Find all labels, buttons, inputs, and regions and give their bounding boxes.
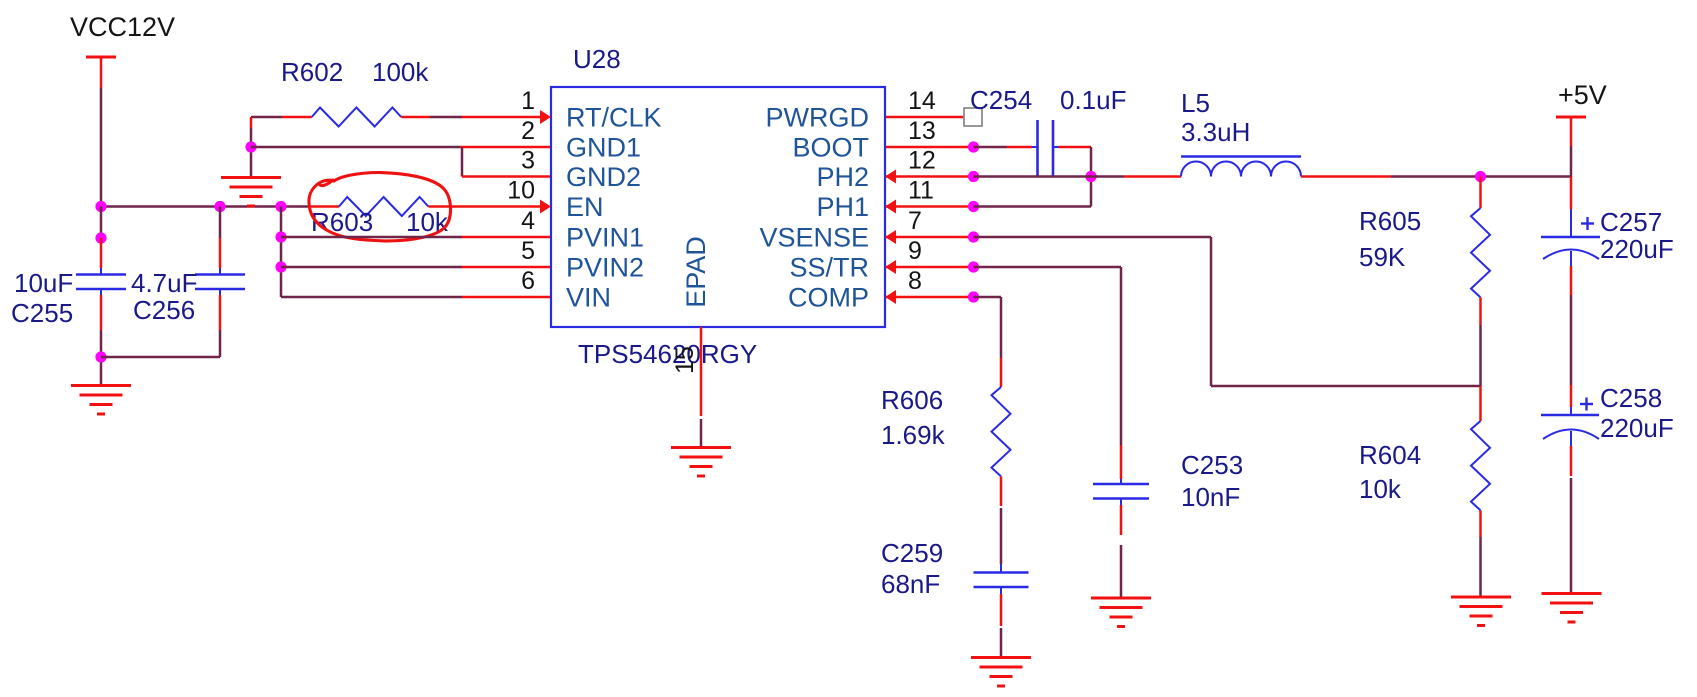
wire — [1570, 385, 1573, 415]
node junction — [968, 201, 979, 212]
pin number 4 — [521, 207, 535, 235]
inductor L5 — [1181, 157, 1301, 177]
value 3.3uH — [1181, 117, 1250, 147]
svg-text:PH2: PH2 — [816, 162, 869, 192]
svg-text:59K: 59K — [1359, 242, 1406, 272]
svg-text:VIN: VIN — [566, 283, 611, 313]
svg-text:10nF: 10nF — [1181, 482, 1240, 512]
svg-text:2: 2 — [521, 117, 535, 145]
svg-text:1.69k: 1.69k — [881, 420, 946, 450]
wire — [428, 205, 540, 208]
wire — [974, 266, 1122, 269]
pin number 9 — [908, 237, 922, 265]
annotation red circle — [309, 173, 451, 241]
wire — [886, 175, 974, 178]
ground — [1542, 594, 1602, 623]
svg-text:5: 5 — [521, 237, 535, 265]
capacitor C253 — [1093, 484, 1149, 499]
svg-text:10k: 10k — [1359, 474, 1402, 504]
value 220uF — [1600, 413, 1674, 443]
pin number 14 — [908, 87, 936, 115]
pin arrow PH2 — [885, 170, 896, 184]
pin number 15 — [671, 346, 699, 374]
svg-text:L5: L5 — [1181, 88, 1210, 118]
wire — [1000, 587, 1002, 658]
pin BOOT — [792, 133, 869, 163]
svg-text:R606: R606 — [881, 385, 943, 415]
wire — [974, 175, 1182, 178]
label R604 — [1359, 440, 1421, 470]
wire — [974, 236, 1212, 239]
svg-text:14: 14 — [908, 87, 936, 115]
node junction — [968, 261, 979, 272]
wire — [401, 116, 540, 119]
pin number 11 — [908, 177, 934, 205]
node junction — [245, 141, 256, 152]
wire — [700, 327, 703, 447]
svg-text:GND1: GND1 — [566, 133, 641, 163]
pin arrow SS/TR — [885, 260, 896, 274]
value 10nF — [1181, 482, 1240, 512]
value 100k — [372, 57, 429, 87]
ground — [671, 448, 731, 477]
resistor R606 — [992, 387, 1011, 476]
resistor R605 — [1471, 208, 1490, 297]
svg-text:R602: R602 — [281, 57, 343, 87]
svg-text:TPS54620RGY: TPS54620RGY — [578, 339, 757, 369]
svg-text:VCC12V: VCC12V — [70, 12, 175, 42]
value 10k — [1359, 474, 1402, 504]
pin GND2 — [566, 162, 641, 192]
svg-text:1: 1 — [521, 87, 535, 115]
pin SS/TR — [789, 253, 869, 283]
value 0.1uF — [1060, 85, 1127, 115]
pin number 8 — [908, 267, 922, 295]
capacitor C258 — [1541, 415, 1599, 439]
node junction — [968, 231, 979, 242]
label C253 — [1181, 450, 1243, 480]
pin number 3 — [521, 147, 535, 175]
label TPS54620RGY — [578, 339, 757, 369]
resistor R602 — [312, 108, 401, 127]
pin EN — [566, 192, 604, 222]
svg-text:15: 15 — [671, 346, 699, 374]
label R605 — [1359, 206, 1421, 236]
svg-text:EN: EN — [566, 192, 604, 222]
wire — [1570, 117, 1573, 177]
label C256 — [133, 295, 195, 325]
power flag VCC12V — [70, 12, 175, 57]
svg-text:C255: C255 — [11, 298, 73, 328]
svg-text:4.7uF: 4.7uF — [131, 268, 198, 298]
polarity plus C258 — [1580, 398, 1593, 411]
value 68nF — [881, 569, 940, 599]
wire — [281, 266, 551, 269]
node junction — [968, 171, 979, 182]
label C257 — [1600, 207, 1662, 237]
wire — [280, 207, 283, 298]
svg-text:PVIN1: PVIN1 — [566, 223, 644, 253]
svg-text:220uF: 220uF — [1600, 413, 1674, 443]
wire — [886, 296, 974, 299]
svg-text:9: 9 — [908, 237, 922, 265]
pin number 5 — [521, 237, 535, 265]
svg-text:C256: C256 — [133, 295, 195, 325]
wire — [1090, 147, 1093, 207]
svg-text:PVIN2: PVIN2 — [566, 253, 644, 283]
wire — [281, 236, 551, 239]
pin VIN — [566, 283, 611, 313]
svg-text:12: 12 — [908, 147, 936, 175]
pin arrow VSENSE — [885, 230, 896, 244]
svg-text:4: 4 — [521, 207, 535, 235]
wire — [101, 356, 220, 359]
IC U28 TPS54620RGY body — [551, 87, 885, 327]
pin number 2 — [521, 117, 535, 145]
svg-text:C259: C259 — [881, 538, 943, 568]
svg-text:C257: C257 — [1600, 207, 1662, 237]
wire — [1301, 175, 1571, 178]
node junction — [968, 141, 979, 152]
svg-text:BOOT: BOOT — [792, 133, 869, 163]
node junction — [95, 232, 106, 243]
pin arrow PH1 — [885, 200, 896, 214]
node junction — [95, 201, 106, 212]
svg-text:C254: C254 — [970, 85, 1032, 115]
node junction — [275, 201, 286, 212]
wire — [100, 57, 103, 207]
value 59K — [1359, 242, 1406, 272]
svg-text:EPAD: EPAD — [681, 236, 711, 308]
svg-text:220uF: 220uF — [1600, 234, 1674, 264]
pin GND1 — [566, 133, 641, 163]
ground — [221, 178, 281, 207]
wire — [886, 236, 974, 239]
capacitor C254 — [1038, 120, 1054, 176]
svg-text:SS/TR: SS/TR — [789, 253, 869, 283]
wire — [219, 207, 222, 275]
wire — [1479, 510, 1482, 597]
pin number 1 — [521, 87, 535, 115]
resistor R604 — [1471, 421, 1490, 510]
pin number 6 — [521, 267, 535, 295]
svg-text:13: 13 — [908, 117, 936, 145]
pin arrow COMP — [885, 290, 896, 304]
wire — [1479, 177, 1482, 209]
wire — [886, 205, 974, 208]
svg-text:R604: R604 — [1359, 440, 1421, 470]
svg-text:0.1uF: 0.1uF — [1060, 85, 1127, 115]
ground — [1451, 597, 1511, 626]
svg-text:C253: C253 — [1181, 450, 1243, 480]
no-connect square — [964, 108, 982, 126]
value 1.69k — [881, 420, 946, 450]
pin PVIN1 — [566, 223, 644, 253]
wire — [1479, 386, 1482, 421]
pin PVIN2 — [566, 253, 644, 283]
capacitor C256 — [195, 275, 245, 290]
label L5 — [1181, 88, 1210, 118]
power flag +5V — [1556, 80, 1607, 117]
node junction — [214, 201, 225, 212]
pin number 7 — [908, 207, 922, 235]
pin number 12 — [908, 147, 936, 175]
wire — [1570, 177, 1573, 238]
polarity plus C257 — [1581, 217, 1594, 230]
wire — [462, 147, 551, 177]
wire — [1000, 297, 1003, 387]
resistor R603 — [339, 197, 428, 216]
svg-text:10uF: 10uF — [14, 268, 73, 298]
label 10uF — [14, 268, 73, 298]
wire — [250, 117, 253, 176]
wire — [101, 205, 339, 208]
node junction — [1475, 171, 1486, 182]
svg-text:+5V: +5V — [1558, 80, 1607, 110]
pin number 10 — [507, 177, 535, 205]
label R603 — [311, 207, 373, 237]
label U28 — [573, 44, 621, 74]
svg-text:100k: 100k — [372, 57, 429, 87]
capacitor C257 — [1541, 237, 1600, 259]
capacitor C255 — [76, 275, 126, 290]
label 4.7uF — [131, 268, 198, 298]
wire — [281, 296, 551, 299]
wire — [1211, 385, 1481, 388]
svg-text:GND2: GND2 — [566, 162, 641, 192]
wire — [1570, 431, 1572, 594]
svg-text:3.3uH: 3.3uH — [1181, 117, 1250, 147]
pin PH2 — [816, 162, 869, 192]
svg-text:COMP: COMP — [788, 283, 869, 313]
svg-text:R605: R605 — [1359, 206, 1421, 236]
pin COMP — [788, 283, 869, 313]
wire — [886, 116, 964, 119]
pin RT/CLK — [566, 103, 662, 133]
node junction — [968, 291, 979, 302]
svg-text:6: 6 — [521, 267, 535, 295]
wire — [974, 205, 1092, 208]
svg-text:VSENSE: VSENSE — [759, 223, 869, 253]
pin arrow EN — [540, 200, 551, 214]
svg-text:8: 8 — [908, 267, 922, 295]
wire — [1120, 267, 1123, 484]
svg-text:PH1: PH1 — [816, 192, 869, 222]
svg-text:PWRGD: PWRGD — [766, 103, 870, 133]
value 220uF — [1600, 234, 1674, 264]
svg-text:C258: C258 — [1600, 383, 1662, 413]
label C259 — [881, 538, 943, 568]
wire — [251, 146, 551, 149]
wire — [886, 266, 974, 269]
capacitor C259 — [974, 573, 1029, 588]
ground — [71, 386, 131, 415]
ground — [971, 658, 1031, 687]
wire — [100, 289, 102, 385]
node junction — [95, 351, 106, 362]
wire — [974, 296, 1002, 299]
wire — [886, 146, 974, 149]
wire — [1053, 146, 1091, 148]
wire — [974, 146, 1038, 149]
wire — [251, 116, 312, 119]
svg-text:68nF: 68nF — [881, 569, 940, 599]
label C254 — [970, 85, 1032, 115]
ground — [1091, 598, 1151, 627]
pin PH1 — [816, 192, 869, 222]
wire — [219, 289, 221, 357]
svg-text:10: 10 — [507, 177, 535, 205]
svg-text:3: 3 — [521, 147, 535, 175]
wire — [1120, 499, 1122, 599]
pin arrow RT/CLK — [540, 110, 551, 124]
svg-text:R603: R603 — [311, 207, 373, 237]
wire — [1479, 297, 1482, 386]
label R602 — [281, 57, 343, 87]
node junction — [1085, 171, 1096, 182]
wire — [100, 207, 103, 239]
wire — [1210, 237, 1213, 386]
svg-text:11: 11 — [908, 177, 934, 205]
wire — [100, 238, 103, 275]
label C255 — [11, 298, 73, 328]
pin VSENSE — [759, 223, 869, 253]
label C258 — [1600, 383, 1662, 413]
pin PWRGD — [766, 103, 870, 133]
node junction — [275, 231, 286, 242]
svg-text:7: 7 — [908, 207, 922, 235]
svg-text:10k: 10k — [406, 207, 449, 237]
wire — [1000, 476, 1003, 572]
svg-text:RT/CLK: RT/CLK — [566, 103, 662, 133]
svg-text:U28: U28 — [573, 44, 621, 74]
label R606 — [881, 385, 943, 415]
wire — [1570, 251, 1572, 385]
value 10k — [406, 207, 449, 237]
pin number 13 — [908, 117, 936, 145]
pin EPAD — [681, 236, 711, 308]
node junction — [275, 261, 286, 272]
